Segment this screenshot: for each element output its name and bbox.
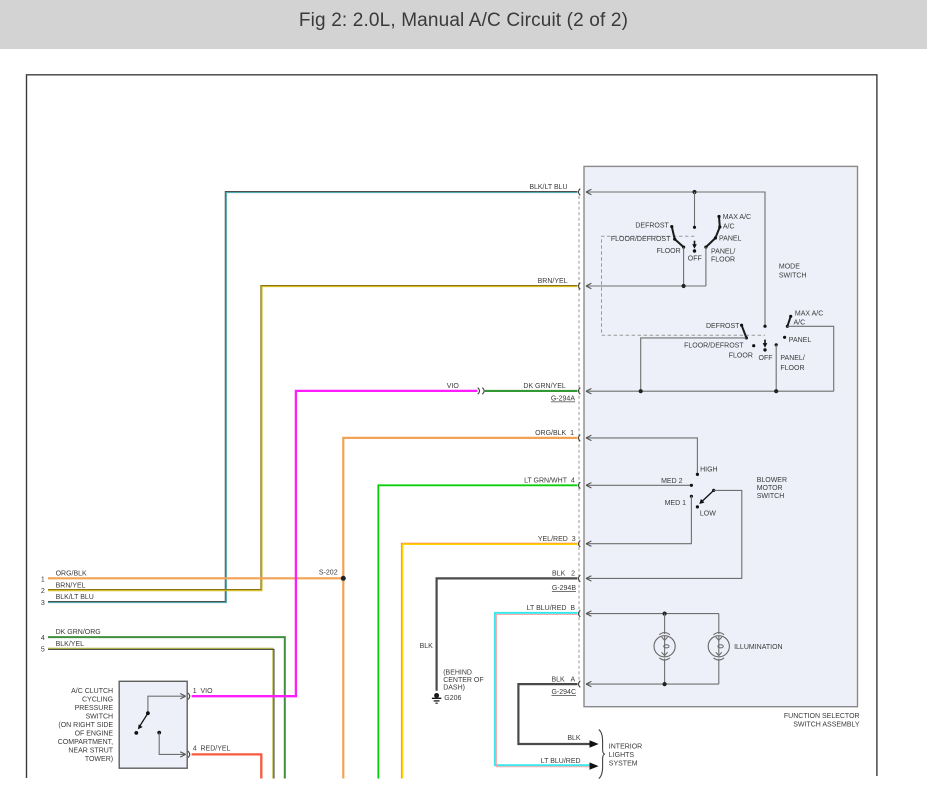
wire BLK/LT BLU (pin 3 stub to selector) — [48, 192, 578, 603]
node feed junction upper wiper — [692, 190, 696, 194]
wire (PANEL/FLOOR contact down to BRN/YEL bus) — [705, 247, 707, 286]
label BRN/YEL pin 2 stub — [41, 582, 86, 595]
label LOW — [700, 511, 716, 518]
svg-text:OF ENGINE: OF ENGINE — [75, 731, 114, 738]
node FLOOR/BRN-YEL junction — [682, 284, 686, 288]
label PANEL/FLOOR (upper wafer) — [711, 248, 735, 263]
wire ORG/BLK (S-202 up and right to selector) — [343, 438, 577, 578]
svg-text:(BEHIND: (BEHIND — [443, 669, 472, 676]
blower motor switch HIGH contact — [696, 473, 699, 476]
svg-text:SYSTEM: SYSTEM — [609, 761, 638, 768]
node lower bus junction right — [774, 389, 778, 393]
interior lights brace — [599, 730, 605, 779]
pressure switch pin 1 internal wire — [148, 694, 186, 714]
svg-text:DK GRN/YEL: DK GRN/YEL — [523, 383, 566, 390]
wire YEL/RED (bottom up to selector) — [401, 543, 577, 778]
label MAX A/C (lower wafer) — [795, 310, 823, 317]
label MAX A/C (upper wafer) — [723, 214, 751, 221]
svg-text:LT BLU/RED B: LT BLU/RED B — [527, 605, 576, 612]
label BLK/LT BLU pin 3 stub — [41, 594, 94, 607]
svg-text:LIGHTS: LIGHTS — [609, 752, 635, 759]
svg-text:BLOWER: BLOWER — [757, 477, 787, 484]
label A/C (upper wafer) — [723, 224, 735, 231]
label BLK 2 — [552, 570, 575, 577]
svg-text:2: 2 — [41, 588, 45, 595]
label BLOWER MOTOR SWITCH — [757, 477, 787, 500]
svg-text:1: 1 — [41, 576, 45, 583]
node illumination top junction — [663, 612, 667, 616]
connector brackets at selector box entries — [578, 189, 580, 688]
label OFF (upper wafer) — [688, 255, 702, 262]
label (ON RIGHT SIDE OF ENGINE COMPARTMENT, NEAR STRUT TOWER) — [58, 722, 114, 763]
blower motor switch MED 2 contact — [690, 484, 693, 487]
label ORG/BLK 1 — [535, 430, 574, 437]
svg-text:BLK/LT BLU: BLK/LT BLU — [529, 184, 567, 191]
svg-text:FLOOR/DEFROST: FLOOR/DEFROST — [684, 343, 744, 350]
svg-text:CYCLING: CYCLING — [82, 697, 113, 704]
label LT BLU/RED B — [527, 605, 576, 612]
svg-text:LT GRN/WHT 4: LT GRN/WHT 4 — [524, 478, 575, 485]
wire (inside selector, BLK/LT BLU feed bus to mode switch) — [586, 189, 765, 326]
label DEFROST (lower wafer) — [706, 323, 740, 330]
label G-294A — [551, 396, 575, 403]
svg-text:MAX A/C: MAX A/C — [795, 310, 823, 317]
wire (inside selector, LT BLU/RED illumination top bus) — [586, 611, 719, 616]
pressure switch blade — [134, 711, 149, 735]
wire VIO (pressure switch pin 1 to splice G-294A) — [192, 391, 478, 696]
page border frame — [27, 75, 877, 778]
svg-text:A/C: A/C — [723, 224, 735, 231]
ground G206 — [432, 693, 441, 703]
wire (lower FLOOR/DEFROST contact left and down to bus) — [641, 338, 747, 391]
mode switch mechanical link (dashed) — [602, 236, 766, 335]
svg-text:BRN/YEL: BRN/YEL — [538, 278, 568, 285]
mode switch upper wafer: wiper pivot and arrow to OFF — [692, 226, 697, 253]
svg-text:G-294B: G-294B — [552, 585, 576, 592]
label BLK (ground wire) — [420, 643, 434, 650]
label LT GRN/WHT 4 — [524, 478, 575, 485]
svg-text:VIO: VIO — [447, 383, 460, 390]
svg-text:MED 2: MED 2 — [661, 478, 683, 485]
label FUNCTION SELECTOR SWITCH ASSEMBLY — [784, 713, 860, 729]
wire LT BLU/RED (selector pin B to interior lights) — [495, 613, 590, 767]
svg-text:OFF: OFF — [759, 355, 773, 362]
svg-text:PANEL: PANEL — [719, 236, 742, 243]
svg-text:OFF: OFF — [688, 255, 702, 262]
svg-text:BLK: BLK — [420, 643, 434, 650]
wire (blower MED 1 down to YEL/RED entry) — [586, 496, 691, 546]
label FLOOR/DEFROST (upper wafer) — [611, 236, 671, 243]
svg-text:BLK/YEL: BLK/YEL — [56, 641, 85, 648]
svg-text:DEFROST: DEFROST — [635, 223, 669, 230]
svg-text:BLK A: BLK A — [551, 676, 575, 683]
svg-text:4 RED/YEL: 4 RED/YEL — [193, 745, 231, 752]
label G206 — [444, 695, 461, 702]
svg-text:G206: G206 — [444, 695, 461, 702]
wire (inside selector, DK GRN/YEL bus) — [586, 389, 834, 394]
label 4 RED/YEL at pressure switch — [193, 745, 231, 752]
svg-text:4: 4 — [41, 635, 45, 642]
label BLK A — [551, 676, 575, 683]
mode switch upper wafer: MAX A/C arc to PANEL/FLOOR — [704, 215, 721, 249]
blower motor switch MED 1 contact — [690, 495, 693, 498]
label PANEL (upper wafer) — [719, 236, 742, 243]
svg-text:FUNCTION SELECTOR: FUNCTION SELECTOR — [784, 713, 860, 720]
label BRN/YEL at selector — [538, 278, 568, 285]
wire ORG/BLK (S-202 down to bottom) — [342, 578, 344, 778]
wire DK GRN/ORG (pin 4 stub down to bottom) — [48, 637, 285, 778]
interior lights arrow LT BLU/RED — [590, 762, 599, 769]
mode switch lower wafer: FLOOR contact — [752, 344, 755, 347]
label FLOOR (upper wafer) — [657, 248, 681, 255]
wire BLK/YEL (pin 5 stub down to bottom) — [48, 648, 274, 778]
svg-text:YEL/RED 3: YEL/RED 3 — [538, 536, 576, 543]
label A/C CLUTCH CYCLING PRESSURE SWITCH — [71, 688, 113, 721]
svg-text:DK GRN/ORG: DK GRN/ORG — [56, 629, 101, 636]
wire (inside selector, BLK illumination bottom bus) — [586, 681, 719, 686]
wire (upper mode switch wiper feed) — [694, 192, 696, 227]
blower motor switch wiper (points to LOW) — [696, 489, 716, 509]
label S-202 — [319, 570, 338, 577]
svg-text:SWITCH ASSEMBLY: SWITCH ASSEMBLY — [793, 721, 860, 728]
wire BLK (selector pin 2 to ground G206) — [437, 578, 578, 690]
label LT BLU/RED (interior lights wire) — [541, 758, 581, 765]
svg-text:5: 5 — [41, 647, 45, 654]
label FLOOR/DEFROST (lower wafer) — [684, 343, 744, 350]
wire DK GRN/YEL (splice to selector) — [485, 390, 578, 392]
label HIGH — [700, 467, 718, 474]
svg-text:MOTOR: MOTOR — [757, 485, 783, 492]
label MODE SWITCH — [779, 264, 807, 280]
svg-text:PANEL: PANEL — [789, 337, 812, 344]
mode switch lower wafer: DEFROST contact arc — [740, 324, 748, 340]
wire (inside selector, BRN/YEL bus) — [586, 283, 706, 288]
svg-text:ORG/BLK: ORG/BLK — [56, 571, 87, 578]
interior lights arrow BLK — [590, 740, 599, 747]
svg-text:MODE: MODE — [779, 264, 800, 271]
mode switch lower wafer: PANEL/FLOOR contact — [775, 343, 778, 346]
svg-text:LOW: LOW — [700, 511, 716, 518]
pressure switch pin 4 contact and internal wire — [157, 731, 185, 757]
label (BEHIND CENTER OF DASH) — [443, 669, 483, 691]
svg-text:S-202: S-202 — [319, 570, 338, 577]
node illumination bottom junction — [663, 682, 667, 686]
label ORG/BLK pin 1 stub — [41, 571, 87, 584]
connector dashed line at selector box edge — [578, 196, 580, 681]
label DEFROST (upper wafer) — [635, 223, 669, 230]
label BLK/LT BLU at selector — [529, 184, 567, 191]
svg-text:FLOOR: FLOOR — [657, 248, 681, 255]
label G-294B — [552, 585, 576, 592]
svg-text:CENTER OF: CENTER OF — [443, 677, 483, 684]
label BLK (interior lights wire) — [567, 735, 581, 742]
label MED 2 — [661, 478, 683, 485]
label INTERIOR LIGHTS SYSTEM — [609, 743, 642, 767]
label A/C (lower wafer) — [794, 320, 806, 327]
label YEL/RED 3 — [538, 536, 576, 543]
svg-text:3: 3 — [41, 600, 45, 607]
svg-text:A/C: A/C — [794, 320, 806, 327]
wire LT GRN/WHT (bottom up to selector) — [378, 485, 577, 778]
A/C clutch cycling pressure switch box — [119, 681, 187, 768]
illumination lamp 1 — [654, 614, 675, 685]
svg-text:FLOOR/DEFROST: FLOOR/DEFROST — [611, 236, 671, 243]
label PANEL/FLOOR (lower wafer) — [780, 355, 804, 372]
wire (blower wiper to BLK pin 2 entry) — [586, 490, 742, 581]
svg-text:A/C CLUTCH: A/C CLUTCH — [71, 688, 113, 695]
wire (lower A/C contact to right and down to DK GRN/YEL bus) — [787, 326, 833, 391]
label PANEL (lower wafer) — [789, 337, 812, 344]
function selector switch assembly box — [584, 166, 858, 706]
svg-text:LT BLU/RED: LT BLU/RED — [541, 758, 581, 765]
svg-text:G-294C: G-294C — [551, 689, 576, 696]
mode switch upper wafer: DEFROST contact arc to FLOOR — [670, 225, 685, 249]
svg-text:DEFROST: DEFROST — [706, 323, 740, 330]
svg-text:ILLUMINATION: ILLUMINATION — [734, 644, 783, 651]
svg-text:INTERIOR: INTERIOR — [609, 743, 642, 750]
svg-text:BLK/LT BLU: BLK/LT BLU — [56, 594, 94, 601]
header banner — [0, 0, 927, 49]
label BLK/YEL pin 5 stub — [41, 641, 84, 654]
svg-text:PRESSURE: PRESSURE — [75, 705, 114, 712]
svg-text:MED 1: MED 1 — [665, 500, 687, 507]
svg-text:G-294A: G-294A — [551, 396, 575, 403]
wire (lower PANEL/FLOOR contact down to bus) — [775, 345, 777, 391]
wire BLK (selector pin A to interior lights) — [518, 684, 589, 744]
svg-text:FLOOR: FLOOR — [780, 365, 804, 372]
inline connector G-294A — [478, 388, 484, 395]
svg-text:FLOOR: FLOOR — [729, 352, 753, 359]
wire (FLOOR contact down to BRN/YEL bus) — [683, 247, 685, 286]
wire RED/YEL (pressure switch pin 4 to bottom) — [192, 754, 262, 778]
svg-text:TOWER): TOWER) — [85, 756, 113, 763]
svg-text:COMPARTMENT,: COMPARTMENT, — [58, 739, 113, 746]
label FLOOR (lower wafer) — [729, 352, 753, 359]
label ILLUMINATION — [734, 644, 783, 651]
svg-text:NEAR STRUT: NEAR STRUT — [68, 748, 113, 755]
svg-text:DASH): DASH) — [443, 685, 465, 692]
label G-294C — [551, 689, 576, 696]
svg-text:1 VIO: 1 VIO — [193, 688, 213, 695]
label 1 VIO at pressure switch — [193, 688, 213, 695]
wire (inside selector, ORG/BLK to blower HIGH) — [586, 435, 697, 474]
svg-text:BLK: BLK — [567, 735, 581, 742]
svg-text:MAX A/C: MAX A/C — [723, 214, 751, 221]
node lower bus junction left — [639, 389, 643, 393]
wire ORG/BLK (pin 1 stub to splice S-202) — [48, 577, 343, 579]
svg-text:SWITCH: SWITCH — [779, 273, 807, 280]
label DK GRN/ORG pin 4 stub — [41, 629, 101, 642]
mode switch lower wafer: wiper pivot and arrow to OFF — [763, 325, 768, 352]
label OFF (lower wafer) — [759, 355, 773, 362]
label VIO — [447, 383, 460, 390]
label DK GRN/YEL — [523, 383, 566, 390]
svg-text:FLOOR: FLOOR — [711, 257, 735, 264]
mode switch lower wafer: MAX A/C arc to A/C — [786, 315, 793, 328]
svg-text:PANEL/: PANEL/ — [780, 355, 804, 362]
wire (inside selector, LT GRN/WHT to blower MED 2) — [586, 483, 691, 488]
label MED 1 — [665, 500, 687, 507]
pressure switch pin brackets — [188, 693, 190, 758]
illumination lamp 2 — [708, 614, 729, 685]
svg-text:PANEL/: PANEL/ — [711, 248, 735, 255]
wire BRN/YEL (pin 2 stub to selector) — [48, 286, 578, 591]
mode switch lower wafer: PANEL contact — [783, 336, 786, 339]
svg-text:SWITCH: SWITCH — [757, 493, 785, 500]
svg-text:(ON RIGHT SIDE: (ON RIGHT SIDE — [58, 722, 113, 729]
svg-text:HIGH: HIGH — [700, 467, 718, 474]
splice S-202 — [341, 576, 346, 581]
svg-text:ORG/BLK 1: ORG/BLK 1 — [535, 430, 574, 437]
svg-text:BRN/YEL: BRN/YEL — [56, 582, 86, 589]
svg-text:SWITCH: SWITCH — [85, 714, 113, 721]
svg-text:BLK 2: BLK 2 — [552, 570, 575, 577]
